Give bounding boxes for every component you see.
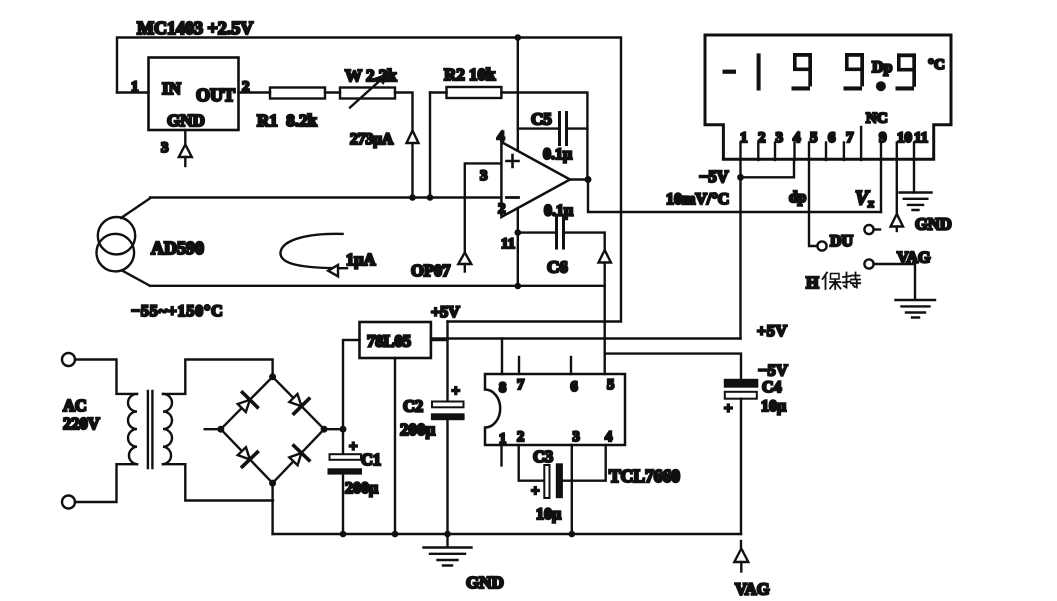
wire node to R2 xyxy=(430,91,447,93)
temperature sensor AD590 outline bottom slant xyxy=(122,271,150,286)
wire C6 left lead xyxy=(518,231,557,233)
voltage reference U MC1403 body xyxy=(149,58,239,131)
capacitor C3 plates xyxy=(544,465,549,498)
svg-text:+: + xyxy=(349,439,358,455)
analog-common arrow VAG bottom xyxy=(740,541,742,549)
svg-text:6: 6 xyxy=(571,379,578,395)
svg-text:3: 3 xyxy=(161,140,169,156)
wire R2 right to feedback drop xyxy=(501,93,587,180)
svg-text:C4: C4 xyxy=(762,379,782,396)
wire bridge right to C1 node xyxy=(324,428,343,430)
svg-text:200μ: 200μ xyxy=(400,420,436,439)
terminal circle DU upper xyxy=(864,225,873,234)
capacitor C4 plates xyxy=(724,379,759,388)
svg-text:C2: C2 xyxy=(403,397,423,416)
wire display pin9 drop xyxy=(880,160,882,212)
wire bridge bottom to rail xyxy=(271,483,273,534)
display module outline xyxy=(705,35,951,159)
svg-text:220V: 220V xyxy=(63,414,100,433)
hanzi chi xyxy=(843,273,860,288)
svg-text:7: 7 xyxy=(517,377,524,393)
terminal circle H-hold xyxy=(864,259,873,268)
svg-text:dp: dp xyxy=(789,189,806,206)
wire -5V line pin5 ICL7660 to C4 xyxy=(605,354,741,379)
svg-text:1: 1 xyxy=(740,130,748,146)
wire R2 left drop to node xyxy=(429,93,431,198)
svg-text:9: 9 xyxy=(879,130,887,146)
svg-text:VAG: VAG xyxy=(897,250,931,267)
node dot 412 xyxy=(409,194,416,201)
wire ICL7660 pin7 stub xyxy=(518,357,520,374)
current loop arrow 1uA xyxy=(280,234,347,268)
display digit 9 (tens) xyxy=(844,53,865,91)
node dot 78L05 gnd rail xyxy=(392,531,399,538)
node dot pin11 to bottom edge xyxy=(515,283,522,290)
resistor R1 xyxy=(270,88,325,99)
regulator U 78L05 xyxy=(360,322,431,358)
diode D1 top-left xyxy=(234,392,257,415)
svg-text:C5: C5 xyxy=(531,110,552,129)
svg-text:4: 4 xyxy=(497,129,505,145)
svg-text:AD590: AD590 xyxy=(151,238,204,258)
resistor R2 xyxy=(447,87,502,98)
earth ground symbol at VAG xyxy=(896,300,936,318)
wire R1 to W xyxy=(325,91,340,93)
svg-text:5: 5 xyxy=(607,377,614,393)
svg-text:273μA: 273μA xyxy=(350,131,394,148)
svg-text:1μA: 1μA xyxy=(346,250,376,269)
svg-text:−5V: −5V xyxy=(699,167,729,186)
charge pump U TCL7660 body xyxy=(485,374,625,445)
svg-text:3: 3 xyxy=(776,130,784,146)
wire C1 top lead xyxy=(342,429,344,454)
wire MC1403 pin3 down xyxy=(184,130,186,145)
display digit 9 (units) xyxy=(896,53,917,90)
wire secondary bottom to bridge column xyxy=(163,464,273,500)
svg-text:10: 10 xyxy=(897,130,912,146)
wire display pin5 to DU switch xyxy=(809,160,817,246)
wire C5 right lead xyxy=(567,127,588,129)
transformer T secondary winding xyxy=(163,394,172,464)
earth ground symbol main GND xyxy=(424,548,472,566)
wire ICL7660 pin8 to +5V xyxy=(501,339,503,375)
svg-text:NC: NC xyxy=(866,111,888,127)
bridge edge bottom-left xyxy=(221,429,273,483)
temperature sensor AD590 outline top slant xyxy=(121,198,150,218)
wire 78L05 ground xyxy=(394,358,396,534)
wire display pin11 to earth xyxy=(913,160,915,193)
svg-text:2: 2 xyxy=(498,201,506,217)
display digit 9 (hundreds) xyxy=(792,53,813,91)
wire DU upper stub xyxy=(874,228,880,230)
wire op-amp pin4 supply drop xyxy=(517,38,519,152)
svg-text:GND: GND xyxy=(167,111,205,130)
wire secondary top to bridge xyxy=(163,360,273,394)
node dot C2 rail xyxy=(444,531,451,538)
node dot -5V tap xyxy=(737,174,744,181)
wire H-hold to earth xyxy=(874,264,915,299)
svg-text:8: 8 xyxy=(499,380,506,396)
node dot 430 xyxy=(427,194,434,201)
wire op-amp pin3 input xyxy=(465,163,502,252)
svg-text:Dp: Dp xyxy=(872,59,893,76)
transformer T primary winding xyxy=(128,394,137,464)
wire AC bottom lead xyxy=(75,464,137,502)
svg-text:C3: C3 xyxy=(533,447,553,466)
wire MC1403 pin1 lead xyxy=(117,91,149,93)
ground arrow at MC1403 pin3 xyxy=(179,145,192,158)
wire main sense line y197 xyxy=(150,196,501,198)
bridge edge top-left xyxy=(221,377,273,429)
svg-text:C1: C1 xyxy=(361,450,381,469)
svg-text:−55~+150°C: −55~+150°C xyxy=(131,303,224,320)
wire C1 bottom lead xyxy=(342,475,344,534)
node dot bridge left xyxy=(217,426,224,433)
terminal circle DU lower xyxy=(817,241,826,250)
wire +5V riser and C2 column xyxy=(446,322,448,402)
wire AC top lead xyxy=(75,360,137,394)
svg-text:10μ: 10μ xyxy=(761,398,786,415)
wire 78L05 output xyxy=(431,339,448,341)
display digit 1 xyxy=(757,53,761,90)
svg-text:OUT: OUT xyxy=(196,85,235,105)
svg-text:W 2.2k: W 2.2k xyxy=(345,66,397,85)
capacitor C1 plates xyxy=(330,454,362,460)
svg-text:R2 10k: R2 10k xyxy=(444,65,496,84)
wire pin4 jumper xyxy=(741,160,795,177)
wire display pin1 to +5V rail xyxy=(739,160,741,339)
display pin ticks 1-11 xyxy=(739,143,741,161)
wire output to display pin9 xyxy=(588,180,881,213)
svg-text:+5V: +5V xyxy=(757,323,787,340)
svg-text:R1 8.2k: R1 8.2k xyxy=(257,111,318,130)
capacitor C2 plates xyxy=(432,402,464,408)
analog-common arrow on C6 column xyxy=(599,250,611,263)
node dot C6 tee xyxy=(515,229,522,236)
svg-text:2: 2 xyxy=(517,429,524,445)
display decimal point dot xyxy=(876,81,886,91)
wire C2 bottom lead xyxy=(446,420,448,534)
hanzi bao xyxy=(823,273,841,290)
svg-text:0.1μ: 0.1μ xyxy=(544,203,573,220)
wire ICL7660 pin6 stub xyxy=(570,357,572,374)
svg-text:5: 5 xyxy=(810,130,818,146)
wire ICL7660 pin1 stub xyxy=(500,445,502,465)
svg-text:MC1403 +2.5V: MC1403 +2.5V xyxy=(137,18,253,38)
analog-common arrow GND xyxy=(891,214,903,227)
node dot C1 rail xyxy=(340,531,347,538)
capacitor C5 plates xyxy=(558,113,561,145)
svg-text:GND: GND xyxy=(915,215,952,234)
svg-text:°C: °C xyxy=(928,57,945,73)
bridge edge bottom-right xyxy=(273,429,325,483)
terminal circle AC bottom xyxy=(62,496,75,509)
wire +2.5V top rail from MC1403 to right drop xyxy=(117,38,621,322)
svg-text:AC: AC xyxy=(63,396,87,415)
node dot C1 top xyxy=(340,426,347,433)
wire bridge left stub xyxy=(205,428,221,430)
wire AD590 bottom edge xyxy=(150,285,605,287)
node dot top rail xyxy=(515,34,522,41)
analog-common arrow OP07 pin xyxy=(458,253,471,265)
display digit minus xyxy=(723,70,737,74)
diode D3 bottom-left xyxy=(234,444,257,467)
svg-text:200μ: 200μ xyxy=(345,480,378,497)
transformer core xyxy=(148,391,153,468)
svg-text:GND: GND xyxy=(466,573,504,592)
svg-text:C6: C6 xyxy=(547,258,568,277)
current arrow 273uA xyxy=(407,131,419,144)
diode D4 bottom-right xyxy=(286,446,309,469)
potentiometer W 2.2k xyxy=(340,88,395,99)
svg-text:10mV/°C: 10mV/°C xyxy=(666,191,729,208)
svg-text:3: 3 xyxy=(573,429,580,445)
wire C5 left lead xyxy=(518,127,560,129)
svg-text:DU: DU xyxy=(830,233,854,250)
node dot bridge top xyxy=(269,373,276,380)
svg-text:3: 3 xyxy=(480,168,488,184)
svg-text:4: 4 xyxy=(793,130,801,146)
wire op-amp output xyxy=(570,178,589,180)
capacitor C6 plates xyxy=(555,217,558,248)
svg-text:+: + xyxy=(531,484,540,500)
svg-text:10μ: 10μ xyxy=(536,506,561,523)
svg-text:6: 6 xyxy=(828,130,836,146)
wire rail to earth xyxy=(446,534,448,547)
wire C3 right to ICL7660 pin4 xyxy=(563,445,606,481)
earth ground symbol at display xyxy=(900,193,932,211)
terminal circle AC top xyxy=(62,353,75,366)
svg-text:78L05: 78L05 xyxy=(367,332,411,351)
bottom rail xyxy=(273,533,741,535)
svg-text:7: 7 xyxy=(846,130,854,146)
wire C1 node up to 78L05 input xyxy=(343,340,360,429)
wire C4 down to rail xyxy=(740,399,742,534)
svg-text:−5V: −5V xyxy=(758,363,788,380)
svg-text:H: H xyxy=(806,273,819,292)
wire op-amp pin11 drop xyxy=(517,208,519,286)
svg-text:x: x xyxy=(867,196,874,210)
op-amp U OP07 triangle xyxy=(501,142,570,217)
wire +5V rail to display pin1 xyxy=(431,337,741,339)
node dot output xyxy=(585,176,592,183)
svg-text:OP07: OP07 xyxy=(411,261,450,280)
wire ICL7660 pin3 to rail xyxy=(571,445,573,534)
svg-text:+: + xyxy=(452,384,461,400)
node dot bridge right xyxy=(321,426,328,433)
svg-text:TCL7660: TCL7660 xyxy=(609,466,680,486)
wire C6 right lead to -5V column xyxy=(564,233,605,374)
svg-text:1: 1 xyxy=(131,79,139,95)
svg-text:2: 2 xyxy=(758,130,766,146)
wire display pin10 to GND arrow xyxy=(896,160,898,214)
temperature sensor AD590 circles xyxy=(98,217,135,254)
svg-text:+: + xyxy=(724,401,733,417)
display pin numbers xyxy=(740,130,928,146)
wire ICL7660 pin2 to C3 xyxy=(519,445,545,481)
svg-text:0.1μ: 0.1μ xyxy=(543,146,572,163)
node dot bridge bottom xyxy=(269,480,276,487)
wire MC1403 pin2 to R1 xyxy=(239,91,271,93)
bridge edge top-right xyxy=(273,377,325,429)
svg-text:+5V: +5V xyxy=(431,304,460,321)
diode D2 top-right xyxy=(286,391,309,414)
svg-text:4: 4 xyxy=(605,429,612,445)
svg-text:11: 11 xyxy=(501,236,515,252)
svg-text:VAG: VAG xyxy=(735,580,770,599)
svg-text:11: 11 xyxy=(914,130,928,146)
svg-text:IN: IN xyxy=(162,79,182,98)
node dot pin3 rail xyxy=(569,531,576,538)
wire W to 273uA node xyxy=(395,93,413,198)
